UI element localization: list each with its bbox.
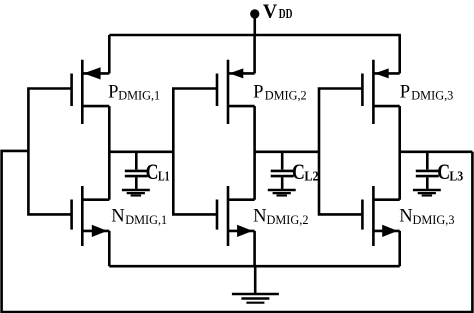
svg-text:DMIG,2: DMIG,2 xyxy=(267,213,309,227)
wire NMOS2 source to ground rail xyxy=(253,231,256,266)
svg-text:DMIG,1: DMIG,1 xyxy=(118,88,160,102)
wire NMOS1 source to ground rail xyxy=(108,231,111,266)
node VDD dot xyxy=(250,9,259,18)
svg-text:C: C xyxy=(146,159,159,184)
svg-text:P: P xyxy=(108,81,118,102)
transistor P_DMIG,1 xyxy=(72,35,110,124)
svg-text:P: P xyxy=(253,81,263,102)
wire output net 3 xyxy=(400,106,473,200)
svg-text:N: N xyxy=(111,205,124,226)
label P_DMIG,3 xyxy=(400,81,454,102)
ground under C_L1 xyxy=(122,190,150,196)
svg-text:V: V xyxy=(263,0,278,22)
wire ground rail xyxy=(109,265,399,268)
svg-text:C: C xyxy=(292,159,305,184)
svg-text:DMIG,2: DMIG,2 xyxy=(265,88,307,102)
transistor P_DMIG,3 xyxy=(362,35,399,124)
transistor P_DMIG,2 xyxy=(217,35,255,124)
svg-text:DD: DD xyxy=(279,7,293,22)
label C_L1 xyxy=(146,159,170,184)
label C_L2 xyxy=(292,159,319,184)
wire input net stage 2 xyxy=(173,89,217,215)
wire feedback loop xyxy=(2,151,473,312)
svg-text:DMIG,3: DMIG,3 xyxy=(413,213,455,227)
transistor N_DMIG,3 xyxy=(362,186,399,246)
svg-text:L2: L2 xyxy=(304,168,318,183)
capacitor C_L2 xyxy=(271,152,294,189)
label V_DD xyxy=(263,0,293,22)
capacitor C_L1 xyxy=(125,152,148,189)
svg-text:L1: L1 xyxy=(158,168,170,183)
wire output net 1 xyxy=(109,106,173,200)
wire VDD stem xyxy=(253,14,256,35)
ground under C_L2 xyxy=(268,190,296,196)
svg-text:C: C xyxy=(437,159,450,184)
transistor N_DMIG,2 xyxy=(217,186,255,246)
svg-text:L3: L3 xyxy=(449,168,463,183)
wire input net stage 1 xyxy=(28,89,71,215)
label P_DMIG,1 xyxy=(108,81,160,102)
wire input net stage 3 xyxy=(319,89,362,215)
wire output net 2 xyxy=(255,106,319,200)
svg-text:N: N xyxy=(253,205,266,226)
label N_DMIG,3 xyxy=(399,205,454,227)
ground main xyxy=(232,266,279,303)
svg-text:P: P xyxy=(400,81,410,102)
label C_L3 xyxy=(437,159,463,184)
svg-text:N: N xyxy=(399,205,412,226)
transistor N_DMIG,1 xyxy=(72,186,110,246)
svg-text:DMIG,3: DMIG,3 xyxy=(411,88,453,102)
capacitor C_L3 xyxy=(416,152,439,189)
wire NMOS3 source to ground rail xyxy=(398,231,401,266)
label N_DMIG,2 xyxy=(253,205,308,227)
wire VDD rail xyxy=(109,34,401,37)
ground under C_L3 xyxy=(413,190,441,196)
label P_DMIG,2 xyxy=(253,81,307,102)
svg-text:DMIG,1: DMIG,1 xyxy=(125,213,167,227)
label N_DMIG,1 xyxy=(111,205,167,227)
